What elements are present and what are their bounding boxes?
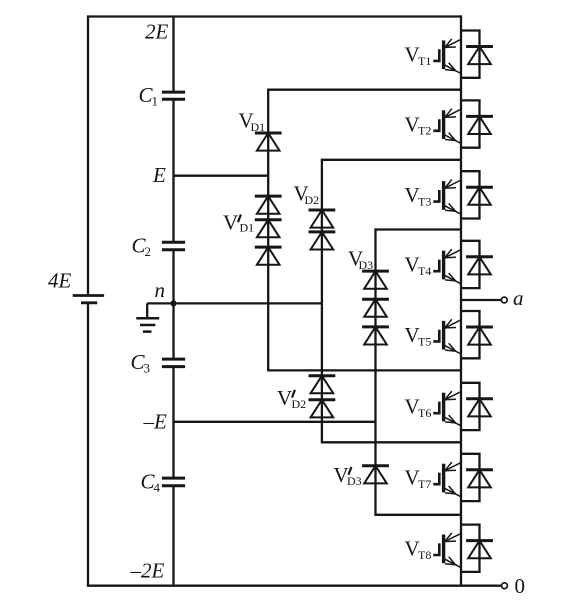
diode V'D1 b bbox=[255, 220, 282, 238]
label VT3 bbox=[405, 183, 432, 208]
label VT1 bbox=[405, 42, 432, 67]
wire clamp column 3 bbox=[374, 230, 376, 515]
capacitor C4 bbox=[162, 478, 185, 486]
diode VD3 b bbox=[362, 299, 389, 317]
wire bottom rail bbox=[87, 585, 502, 587]
svg-text:T1: T1 bbox=[418, 54, 431, 68]
label VD2 bbox=[294, 181, 320, 207]
freewheel diode T3 bbox=[466, 187, 493, 205]
svg-text:T6: T6 bbox=[418, 406, 431, 420]
wire left rail lower bbox=[87, 303, 89, 586]
ground bbox=[136, 303, 173, 331]
diode V'D2 b bbox=[309, 400, 336, 418]
svg-text:D3: D3 bbox=[347, 474, 362, 488]
svg-text:E: E bbox=[152, 163, 166, 187]
svg-text:T7: T7 bbox=[418, 477, 431, 491]
wire clamp column 2 bbox=[321, 160, 323, 443]
svg-text:D3: D3 bbox=[359, 258, 374, 272]
svg-text:4E: 4E bbox=[48, 268, 72, 292]
diode V'D1 c bbox=[255, 247, 282, 265]
label VT2 bbox=[405, 112, 432, 137]
wire T3 loop bbox=[461, 171, 480, 218]
IGBT VT3 bbox=[433, 180, 461, 215]
wire T2 loop bbox=[461, 100, 480, 147]
IGBT VT7 bbox=[433, 462, 461, 497]
label VT7 bbox=[405, 466, 432, 491]
svg-text:T5: T5 bbox=[418, 334, 431, 348]
svg-text:2E: 2E bbox=[145, 20, 169, 44]
capacitor C2 bbox=[162, 242, 185, 250]
wire C1 to C2 bbox=[172, 99, 174, 242]
wire T1 loop bbox=[461, 31, 480, 78]
wire T5 loop bbox=[461, 311, 480, 358]
wire junction T3-T4 bbox=[374, 228, 461, 230]
battery 4E bbox=[73, 296, 104, 303]
node -E wire bbox=[174, 421, 376, 423]
label V'D1 bbox=[223, 211, 254, 235]
svg-text:a: a bbox=[513, 286, 524, 310]
svg-text:T8: T8 bbox=[418, 548, 431, 562]
label VT6 bbox=[405, 395, 432, 420]
label VT5 bbox=[405, 323, 432, 348]
wire junction T6-T7 bbox=[321, 441, 461, 443]
terminal a bbox=[501, 297, 507, 303]
label VT8 bbox=[405, 537, 432, 562]
node E wire bbox=[174, 175, 269, 177]
freewheel diode T8 bbox=[466, 541, 493, 559]
IGBT VT2 bbox=[433, 109, 461, 144]
IGBT VT6 bbox=[433, 391, 461, 426]
junction dot node n bbox=[170, 300, 176, 306]
diode VD3 a bbox=[362, 271, 389, 289]
svg-text:1: 1 bbox=[152, 94, 159, 109]
wire switch chain bbox=[460, 15, 462, 585]
svg-text:D1: D1 bbox=[251, 120, 266, 134]
freewheel diode T5 bbox=[466, 327, 493, 345]
svg-text:D2: D2 bbox=[305, 193, 320, 207]
freewheel diode T4 bbox=[466, 257, 493, 275]
wire junction T2-T3 bbox=[321, 159, 461, 161]
wire C4 to -2E bbox=[172, 486, 174, 586]
IGBT VT4 bbox=[433, 249, 461, 284]
label VD1 bbox=[239, 108, 266, 134]
wire clamp column 1 bbox=[267, 90, 269, 371]
wire T4 loop bbox=[461, 241, 480, 288]
freewheel diode T7 bbox=[466, 470, 493, 488]
wire T7 loop bbox=[461, 454, 480, 501]
IGBT VT1 bbox=[433, 39, 461, 74]
wire T8 loop bbox=[461, 525, 480, 572]
svg-text:D2: D2 bbox=[292, 397, 307, 411]
svg-text:T4: T4 bbox=[418, 264, 431, 278]
terminal 0 bbox=[502, 583, 508, 589]
svg-text:V: V bbox=[277, 386, 292, 410]
svg-text:3: 3 bbox=[144, 361, 151, 376]
capacitor C1 bbox=[162, 92, 185, 99]
svg-text:0: 0 bbox=[515, 574, 526, 598]
wire junction T1-T2 bbox=[267, 89, 461, 91]
svg-text:–E: –E bbox=[143, 409, 168, 433]
diode VD2 a bbox=[309, 210, 336, 228]
svg-text:T2: T2 bbox=[418, 124, 431, 138]
wire output a bbox=[461, 299, 501, 301]
svg-text:–2E: –2E bbox=[130, 558, 165, 582]
wire dc-link 2E to C1 bbox=[172, 17, 174, 93]
diode VD2 b bbox=[309, 232, 336, 250]
label C3 bbox=[131, 350, 151, 376]
label C2 bbox=[132, 233, 152, 258]
wire left rail upper bbox=[87, 15, 89, 295]
IGBT VT8 bbox=[433, 533, 461, 568]
diode VD3 c bbox=[362, 327, 389, 345]
freewheel diode T1 bbox=[466, 47, 493, 65]
diode V'D1 a bbox=[255, 196, 282, 214]
capacitor C3 bbox=[162, 359, 185, 367]
diode VD1 bbox=[255, 133, 282, 151]
label V'D3 bbox=[334, 463, 362, 488]
label VT4 bbox=[405, 253, 432, 278]
label C1 bbox=[139, 83, 159, 109]
svg-text:n: n bbox=[155, 278, 166, 302]
svg-text:4: 4 bbox=[154, 480, 161, 495]
label V'D2 bbox=[277, 386, 306, 411]
svg-text:T3: T3 bbox=[418, 195, 431, 209]
svg-text:2: 2 bbox=[145, 244, 152, 259]
label C4 bbox=[141, 469, 161, 495]
diode V'D2 a bbox=[309, 376, 336, 394]
freewheel diode T6 bbox=[466, 399, 493, 417]
svg-text:D1: D1 bbox=[240, 220, 255, 234]
wire C2 to C3 bbox=[172, 250, 174, 359]
label VD3 bbox=[348, 246, 373, 272]
svg-text:V: V bbox=[223, 211, 238, 235]
wire junction T7-T8 bbox=[374, 514, 461, 516]
node n wire bbox=[174, 302, 322, 304]
freewheel diode T2 bbox=[466, 116, 493, 134]
wire C3 to C4 bbox=[172, 367, 174, 479]
wire junction T5-T6 bbox=[267, 369, 461, 371]
wire T6 loop bbox=[461, 383, 480, 430]
wire top rail bbox=[88, 15, 461, 17]
diode V'D3 bbox=[362, 466, 389, 484]
IGBT VT5 bbox=[433, 319, 461, 354]
